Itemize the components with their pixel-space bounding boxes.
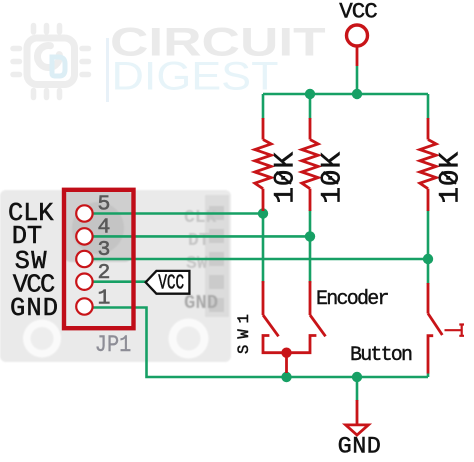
svg-text:VCC: VCC bbox=[158, 273, 184, 296]
svg-text:2: 2 bbox=[98, 261, 111, 285]
svg-text:VCC: VCC bbox=[339, 0, 378, 25]
svg-text:5: 5 bbox=[98, 192, 111, 216]
svg-text:10K: 10K bbox=[436, 152, 467, 204]
svg-text:GND: GND bbox=[338, 434, 381, 458]
svg-text:3: 3 bbox=[98, 238, 111, 262]
svg-text:GND: GND bbox=[184, 292, 218, 314]
svg-text:1: 1 bbox=[98, 287, 111, 311]
svg-text:SW1: SW1 bbox=[235, 314, 253, 354]
svg-text:GND: GND bbox=[10, 294, 58, 323]
svg-text:10K: 10K bbox=[271, 152, 302, 204]
svg-text:DIGEST: DIGEST bbox=[112, 55, 279, 99]
svg-text:Button: Button bbox=[350, 344, 413, 367]
svg-text:Encoder: Encoder bbox=[316, 288, 390, 311]
svg-text:10K: 10K bbox=[318, 152, 349, 204]
svg-text:4: 4 bbox=[98, 215, 111, 239]
svg-text:DT: DT bbox=[188, 231, 210, 251]
svg-text:JP1: JP1 bbox=[95, 332, 132, 359]
svg-text:CLK: CLK bbox=[184, 208, 217, 228]
